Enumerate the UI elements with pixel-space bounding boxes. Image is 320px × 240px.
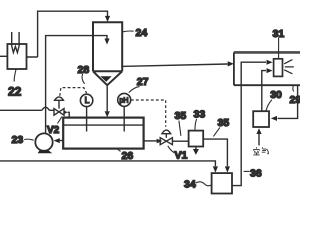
tank 26 [63, 118, 143, 149]
wire valve V1 to box 33 [172, 140, 188, 142]
svg-text:22: 22 [8, 85, 22, 99]
wire vessel 24 outlet down to tank 26 [106, 85, 108, 111]
arrowhead into vessel 24 top [105, 16, 110, 22]
valve V2 actuator [55, 97, 64, 109]
wire chamber drain to blower 30 [278, 85, 298, 118]
svg-text:35: 35 [218, 117, 230, 129]
leader label 26 [118, 149, 121, 152]
nozzle 31 [274, 59, 283, 77]
box 33 [189, 131, 204, 147]
label 35 first leader [179, 121, 181, 136]
leader label 22 [14, 70, 16, 82]
arrowhead into valve V1 [157, 139, 163, 144]
settling box 34 [212, 173, 232, 193]
svg-text:34: 34 [184, 178, 196, 190]
svg-text:28: 28 [78, 64, 90, 76]
wire gas line vessel 24 to chamber [122, 64, 227, 66]
svg-text:pH: pH [120, 98, 129, 105]
wire from blower 30 up to nozzle 31 [262, 71, 266, 112]
blower 30 [253, 111, 269, 127]
wire pH sensor dip tube [123, 106, 125, 131]
arrowhead into tank inlet [64, 110, 68, 114]
svg-text:23: 23 [12, 134, 24, 146]
wire top feed from heater 22 to vessel 24 [27, 11, 108, 57]
arrowhead into nozzle 31 upper [267, 60, 273, 65]
wire 36 from settling box 34 up to nozzle 31 [232, 62, 266, 185]
leader label 23 [24, 139, 33, 140]
wire inlet stub into heater 22 [0, 55, 7, 57]
arrowhead into box 34 left inlet [213, 166, 218, 172]
svg-text:33: 33 [194, 108, 206, 120]
svg-text:L: L [85, 95, 90, 105]
solid discharge triangle inside funnel of 24 [100, 76, 111, 82]
chamber 29 top [234, 51, 300, 54]
leader label 33 [195, 119, 197, 130]
arrowhead into chamber wall [228, 61, 234, 66]
leader label 24 [123, 30, 134, 33]
arrowhead into blower 30 right side [271, 116, 277, 121]
svg-text:29: 29 [290, 94, 301, 106]
arrowhead into nozzle 31 lower [267, 68, 273, 73]
wire pump riser to vessel 24 inner inlet [46, 36, 107, 134]
label 35 second leader [213, 127, 220, 136]
air label (kanji drawn) [253, 147, 268, 155]
svg-text:35: 35 [175, 110, 187, 122]
svg-text:24: 24 [136, 27, 148, 39]
valve V2 [54, 109, 64, 116]
leader label 34 [196, 182, 212, 186]
wire tank 26 to valve V1 [144, 140, 157, 142]
label 36 dash [244, 170, 250, 172]
box 33 bottom outlet arrow [195, 147, 197, 150]
svg-text:30: 30 [270, 89, 282, 101]
leader label 28 [82, 74, 85, 84]
tank 26 inner level line [63, 124, 143, 126]
dashed control line L to valve V2 [60, 88, 87, 96]
pump 23 base [38, 150, 53, 153]
chamber 29 left wall and bottom [234, 52, 300, 85]
arrowhead inner inlet vessel 24 [104, 39, 109, 45]
valve V1 actuator [162, 130, 171, 138]
leader label 27 [129, 86, 140, 92]
vessel 24 [93, 22, 122, 85]
arrowhead into pump 23 [54, 138, 60, 143]
svg-text:V1: V1 [175, 150, 188, 162]
pH sensor (27) [118, 93, 131, 106]
pump 23 [35, 133, 52, 150]
air inlet arrow into blower 30 [258, 133, 260, 145]
wire feed water line with crossover hump to valve V2 [0, 107, 54, 110]
arrowhead into box 34 right inlet [225, 166, 230, 172]
svg-text:27: 27 [137, 76, 149, 88]
wire valve V2 outlet elbow into tank [68, 112, 70, 117]
label V1 leader [168, 146, 175, 153]
svg-text:31: 31 [273, 28, 285, 40]
leader label 30 [266, 100, 272, 111]
spray lines of nozzle 31 [284, 60, 294, 74]
wire L sensor dip tube [86, 107, 88, 132]
wire long drain line to box 34 [0, 161, 215, 166]
level sensor L (28) [80, 94, 92, 106]
arrowhead into tank 26 [105, 111, 110, 117]
dashed control line pH to valve V1 [131, 100, 166, 127]
heater 22 [7, 32, 26, 69]
wire box 33 to settling box 34 [203, 139, 227, 166]
valve V1 [160, 138, 172, 145]
label V2 leader [58, 117, 63, 124]
leader label 29 [292, 86, 295, 92]
svg-text:36: 36 [250, 168, 262, 180]
label 31 stem [278, 38, 280, 59]
wire tank 26 to pump 23 suction [60, 140, 63, 142]
